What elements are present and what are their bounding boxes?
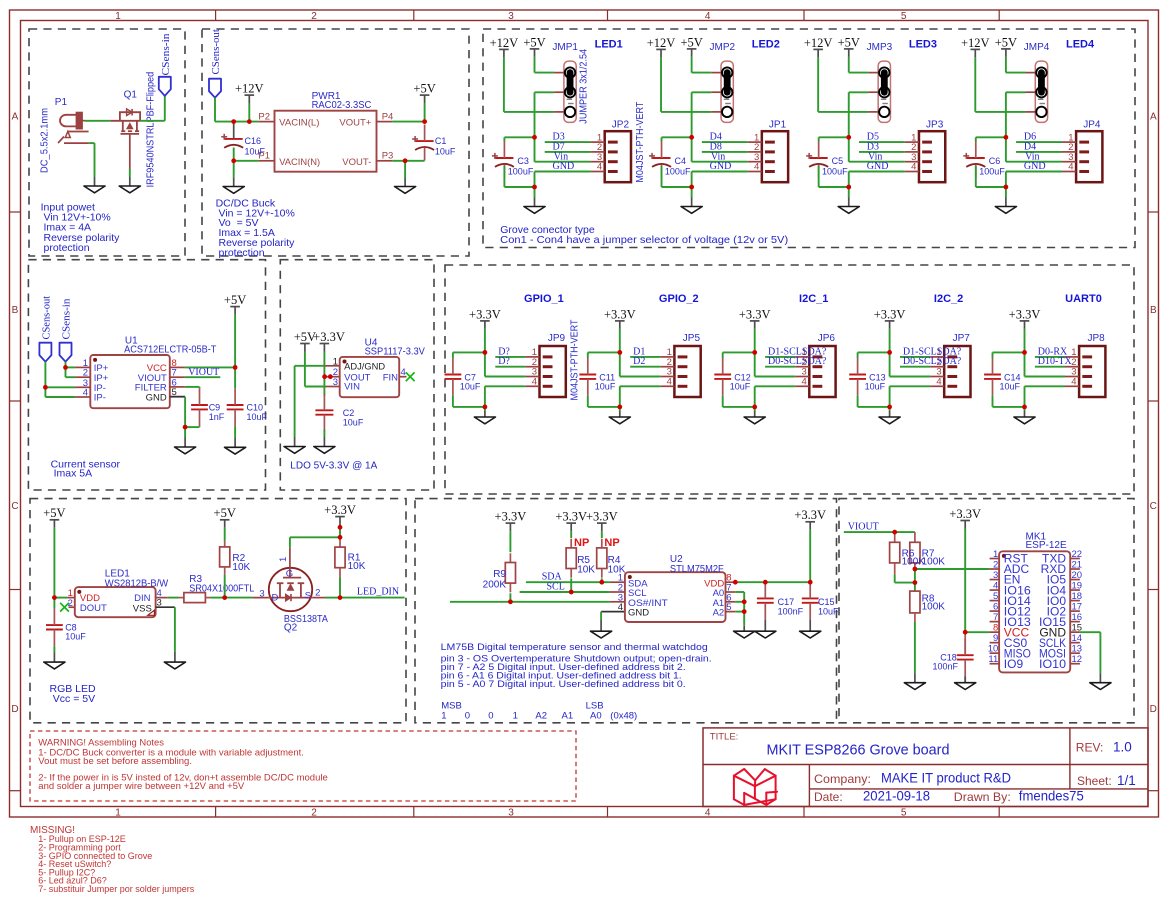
- svg-text:C: C: [11, 501, 18, 512]
- svg-text:CSens-out: CSens-out: [40, 296, 52, 340]
- svg-text:16: 16: [1072, 612, 1083, 623]
- svg-text:4: 4: [936, 377, 941, 388]
- svg-text:3: 3: [333, 377, 338, 388]
- svg-text:REV:: REV:: [1076, 741, 1104, 755]
- svg-text:0: 0: [465, 711, 470, 722]
- svg-text:1nF: 1nF: [209, 412, 225, 422]
- svg-text:2: 2: [68, 598, 73, 609]
- svg-text:ESP-12E: ESP-12E: [1026, 540, 1067, 551]
- svg-text:JP8: JP8: [1088, 333, 1106, 344]
- svg-text:2: 2: [315, 588, 320, 599]
- svg-text:18: 18: [1072, 591, 1083, 602]
- svg-text:1: 1: [333, 356, 338, 367]
- svg-text:JP5: JP5: [683, 333, 701, 344]
- svg-text:Drawn By:: Drawn By:: [954, 790, 1011, 804]
- svg-text:ACS712ELCTR-05B-T: ACS712ELCTR-05B-T: [124, 344, 216, 355]
- svg-text:10K: 10K: [348, 561, 366, 572]
- svg-text:JP6: JP6: [818, 333, 836, 344]
- svg-text:fmendes75: fmendes75: [1019, 789, 1084, 804]
- svg-text:DC_5.5x2.1mm: DC_5.5x2.1mm: [40, 108, 51, 173]
- svg-text:JP4: JP4: [1083, 119, 1101, 130]
- svg-text:3: 3: [993, 570, 998, 581]
- svg-text:C4: C4: [675, 156, 687, 166]
- svg-text:MKIT ESP8266 Grove board: MKIT ESP8266 Grove board: [767, 742, 950, 759]
- svg-text:GND: GND: [867, 161, 889, 172]
- svg-text:P3: P3: [382, 151, 394, 162]
- svg-text:14: 14: [1072, 633, 1083, 644]
- svg-text:10: 10: [988, 643, 999, 654]
- svg-text:IRF9540NSTRLPBF-Flipped: IRF9540NSTRLPBF-Flipped: [146, 72, 157, 188]
- svg-text:3: 3: [508, 807, 514, 818]
- svg-text:B: B: [12, 305, 19, 316]
- svg-text:1: 1: [441, 711, 446, 722]
- svg-text:+12V: +12V: [961, 36, 990, 50]
- svg-text:D: D: [272, 592, 279, 603]
- svg-text:+5V: +5V: [995, 35, 1017, 49]
- svg-text:A2: A2: [713, 608, 725, 619]
- svg-text:200K: 200K: [483, 580, 507, 591]
- svg-text:4: 4: [1071, 377, 1076, 388]
- svg-text:4: 4: [911, 162, 916, 173]
- svg-text:100uF: 100uF: [508, 166, 534, 176]
- svg-text:4: 4: [401, 367, 406, 378]
- svg-text:FIN: FIN: [383, 372, 398, 383]
- svg-text:S: S: [305, 591, 311, 602]
- svg-text:A2: A2: [535, 711, 547, 722]
- svg-text:4: 4: [83, 388, 88, 399]
- svg-text:4: 4: [618, 602, 623, 613]
- svg-text:100K: 100K: [922, 557, 946, 568]
- svg-text:JMP4: JMP4: [1024, 42, 1050, 53]
- svg-text:G: G: [286, 569, 293, 580]
- svg-text:+3.3V: +3.3V: [495, 510, 527, 524]
- svg-text:0: 0: [488, 711, 493, 722]
- svg-text:4: 4: [667, 377, 672, 388]
- svg-text:1.0: 1.0: [1113, 740, 1132, 755]
- svg-text:9: 9: [993, 633, 998, 644]
- svg-text:and solder a jumper wire betwe: and solder a jumper wire between +12V an…: [38, 781, 245, 792]
- svg-text:VIOUT: VIOUT: [848, 521, 879, 532]
- svg-text:D0-SCLSDA?: D0-SCLSDA?: [768, 356, 827, 367]
- svg-text:P2: P2: [258, 111, 270, 122]
- svg-text:VACIN(N): VACIN(N): [279, 157, 320, 168]
- svg-text:LED3: LED3: [909, 39, 937, 51]
- svg-text:+5V: +5V: [43, 506, 65, 520]
- svg-text:+5V: +5V: [224, 293, 246, 307]
- svg-text:IO9: IO9: [1004, 657, 1024, 671]
- svg-text:I2C_1: I2C_1: [799, 293, 828, 305]
- svg-text:VSS: VSS: [133, 603, 152, 614]
- svg-text:protection: protection: [219, 247, 265, 259]
- svg-text:5: 5: [993, 591, 998, 602]
- svg-text:3: 3: [259, 588, 264, 599]
- svg-text:D: D: [1150, 704, 1157, 715]
- svg-text:22: 22: [1072, 549, 1083, 560]
- svg-text:+3.3V: +3.3V: [1009, 307, 1041, 321]
- svg-text:10uF: 10uF: [460, 381, 481, 391]
- svg-text:SR04X1000FTL: SR04X1000FTL: [189, 584, 254, 595]
- svg-text:I2C_2: I2C_2: [934, 293, 963, 305]
- svg-text:19: 19: [1072, 580, 1083, 591]
- svg-text:GND: GND: [146, 392, 167, 403]
- svg-text:7: 7: [993, 612, 998, 623]
- svg-text:5: 5: [901, 807, 907, 818]
- svg-text:10uF: 10uF: [65, 632, 86, 642]
- svg-text:Date:: Date:: [814, 790, 843, 804]
- svg-text:STLM75M2F: STLM75M2F: [670, 564, 724, 575]
- svg-text:10uF: 10uF: [435, 147, 456, 157]
- svg-text:2: 2: [311, 807, 317, 818]
- svg-text:+12V: +12V: [804, 36, 833, 50]
- svg-text:1: 1: [115, 11, 121, 22]
- svg-text:protection: protection: [44, 242, 90, 254]
- svg-text:10uF: 10uF: [343, 417, 364, 427]
- svg-text:Company:: Company:: [814, 772, 871, 786]
- svg-text:3: 3: [508, 11, 514, 22]
- svg-text:JMP2: JMP2: [710, 42, 736, 53]
- svg-text:21: 21: [1072, 559, 1083, 570]
- svg-text:VIOUT: VIOUT: [188, 367, 219, 378]
- svg-text:JP7: JP7: [953, 333, 971, 344]
- svg-text:1: 1: [993, 549, 998, 560]
- svg-text:4: 4: [993, 580, 998, 591]
- svg-text:C17: C17: [778, 597, 795, 607]
- svg-text:UART0: UART0: [1065, 293, 1102, 305]
- svg-text:C5: C5: [832, 156, 844, 166]
- svg-text:MAKE IT product R&D: MAKE IT product R&D: [881, 771, 1011, 786]
- svg-text:4: 4: [705, 11, 711, 22]
- svg-text:VOUT-: VOUT-: [342, 157, 371, 168]
- svg-text:2: 2: [993, 559, 998, 570]
- svg-text:GND: GND: [628, 608, 649, 619]
- svg-text:NP: NP: [574, 537, 589, 549]
- svg-text:M04JST-PTH-VERT: M04JST-PTH-VERT: [570, 320, 581, 401]
- svg-text:4: 4: [597, 162, 602, 173]
- svg-text:C6: C6: [989, 156, 1001, 166]
- svg-text:Con1 - Con4 have a jumper sele: Con1 - Con4 have a jumper selector of vo…: [500, 234, 788, 246]
- svg-text:D10-TX: D10-TX: [1038, 356, 1073, 367]
- svg-text:10uF: 10uF: [1000, 381, 1021, 391]
- svg-text:VACIN(L): VACIN(L): [279, 118, 319, 129]
- svg-text:C15: C15: [818, 597, 835, 607]
- svg-text:+3.3V: +3.3V: [313, 330, 345, 344]
- svg-text:4: 4: [754, 162, 759, 173]
- svg-text:ADJ/GND: ADJ/GND: [344, 362, 385, 373]
- svg-text:M04JST-PTH-VERT: M04JST-PTH-VERT: [635, 102, 646, 183]
- svg-text:+3.3V: +3.3V: [949, 507, 981, 521]
- svg-text:VIN: VIN: [344, 381, 360, 392]
- svg-text:4: 4: [802, 377, 807, 388]
- svg-text:1: 1: [115, 807, 121, 818]
- svg-text:GND: GND: [553, 161, 575, 172]
- svg-text:17: 17: [1072, 601, 1083, 612]
- svg-text:10uF: 10uF: [818, 607, 839, 617]
- svg-text:C1: C1: [435, 136, 447, 146]
- svg-text:A0: A0: [590, 711, 602, 722]
- svg-text:SCL: SCL: [547, 581, 565, 592]
- svg-text:+5V: +5V: [523, 35, 545, 49]
- svg-text:+12V: +12V: [490, 36, 519, 50]
- svg-text:Vout must be set before assemb: Vout must be set before assembling.: [38, 756, 192, 767]
- svg-text:+3.3V: +3.3V: [586, 510, 618, 524]
- svg-text:2: 2: [311, 11, 317, 22]
- svg-text:DOUT: DOUT: [80, 603, 107, 614]
- svg-text:5: 5: [901, 11, 907, 22]
- svg-text:P4: P4: [382, 111, 394, 122]
- svg-text:NP: NP: [604, 537, 619, 549]
- svg-text:+3.3V: +3.3V: [604, 307, 636, 321]
- svg-text:D2: D2: [633, 356, 645, 367]
- svg-text:JMP3: JMP3: [867, 42, 893, 53]
- svg-text:+12V: +12V: [235, 82, 264, 96]
- svg-text:P1: P1: [55, 97, 68, 108]
- svg-text:Imax 5A: Imax 5A: [54, 468, 93, 480]
- svg-text:10uF: 10uF: [247, 412, 268, 422]
- svg-text:JMP1: JMP1: [552, 42, 578, 53]
- svg-text:RAC02-3.3SC: RAC02-3.3SC: [312, 100, 372, 111]
- svg-text:100nF: 100nF: [778, 607, 804, 617]
- svg-text:4: 4: [532, 377, 537, 388]
- svg-text:IO10: IO10: [1039, 657, 1066, 671]
- svg-text:LM75B Digital temperature sens: LM75B Digital temperature sensor and the…: [441, 642, 708, 653]
- svg-text:SSP1117-3.3V: SSP1117-3.3V: [365, 347, 426, 358]
- svg-text:2021-09-18: 2021-09-18: [863, 789, 930, 804]
- svg-text:+3.3V: +3.3V: [739, 307, 771, 321]
- svg-text:D: D: [11, 704, 18, 715]
- svg-text:+12V: +12V: [647, 36, 676, 50]
- svg-text:A: A: [12, 112, 19, 123]
- svg-text:C10: C10: [247, 403, 264, 413]
- svg-text:100K: 100K: [922, 602, 946, 613]
- svg-text:+5V: +5V: [680, 35, 702, 49]
- svg-text:CSens-out: CSens-out: [210, 29, 222, 74]
- svg-text:A1: A1: [562, 711, 574, 722]
- svg-text:CSens-in: CSens-in: [160, 33, 172, 76]
- svg-text:C3: C3: [517, 156, 529, 166]
- svg-text:+3.3V: +3.3V: [794, 508, 826, 522]
- svg-text:JP9: JP9: [548, 333, 566, 344]
- svg-text:10uF: 10uF: [730, 381, 751, 391]
- svg-text:20: 20: [1072, 570, 1083, 581]
- svg-text:B: B: [1150, 305, 1157, 316]
- svg-text:10uF: 10uF: [595, 381, 616, 391]
- svg-text:4: 4: [705, 807, 711, 818]
- svg-text:CSens-in: CSens-in: [61, 298, 73, 340]
- svg-text:7- substituir Jumper por solde: 7- substituir Jumper por solder jumpers: [38, 884, 195, 894]
- svg-text:Sheet:: Sheet:: [1077, 774, 1112, 788]
- svg-text:100uF: 100uF: [979, 166, 1005, 176]
- svg-text:D?: D?: [498, 356, 510, 367]
- svg-text:D0-SCLSDA?: D0-SCLSDA?: [903, 356, 962, 367]
- svg-text:100uF: 100uF: [665, 166, 691, 176]
- svg-text:JP2: JP2: [612, 119, 630, 130]
- svg-text:LED2: LED2: [752, 39, 780, 51]
- svg-text:10K: 10K: [608, 564, 626, 575]
- svg-text:C9: C9: [209, 403, 221, 413]
- svg-text:+5V: +5V: [214, 506, 236, 520]
- svg-text:10uF: 10uF: [245, 147, 266, 157]
- svg-text:JUMPER 3x1/2.54: JUMPER 3x1/2.54: [579, 49, 590, 124]
- svg-text:+5V: +5V: [838, 35, 860, 49]
- svg-text:1: 1: [513, 711, 518, 722]
- svg-text:11: 11: [988, 654, 998, 665]
- svg-text:+3.3V: +3.3V: [324, 503, 356, 517]
- svg-text:TITLE:: TITLE:: [710, 732, 739, 743]
- svg-text:Q1: Q1: [124, 90, 138, 101]
- svg-text:100nF: 100nF: [932, 661, 958, 671]
- svg-text:A: A: [1150, 112, 1157, 123]
- svg-text:(0x48): (0x48): [610, 711, 637, 722]
- svg-text:6: 6: [993, 601, 998, 612]
- svg-text:VOUT+: VOUT+: [339, 118, 371, 129]
- svg-text:100uF: 100uF: [822, 166, 848, 176]
- svg-text:C: C: [1150, 501, 1157, 512]
- svg-text:JP1: JP1: [769, 119, 787, 130]
- svg-text:10K: 10K: [232, 562, 250, 573]
- svg-text:LED_DIN: LED_DIN: [357, 586, 399, 597]
- svg-text:10uF: 10uF: [865, 381, 886, 391]
- svg-text:GND: GND: [1024, 161, 1046, 172]
- svg-text:1: 1: [278, 557, 289, 562]
- svg-text:GND: GND: [710, 161, 732, 172]
- svg-text:+3.3V: +3.3V: [555, 510, 587, 524]
- svg-text:C16: C16: [245, 136, 262, 146]
- svg-text:1/1: 1/1: [1117, 773, 1136, 788]
- svg-text:8: 8: [993, 622, 998, 633]
- svg-text:+5V: +5V: [413, 82, 435, 96]
- svg-text:LED4: LED4: [1066, 39, 1095, 51]
- svg-text:GPIO_1: GPIO_1: [524, 293, 564, 305]
- svg-text:10K: 10K: [577, 564, 595, 575]
- svg-text:JP3: JP3: [926, 119, 944, 130]
- svg-text:LED1: LED1: [595, 39, 623, 51]
- svg-text:GPIO_2: GPIO_2: [659, 293, 699, 305]
- svg-text:4: 4: [1068, 162, 1073, 173]
- svg-text:13: 13: [1072, 643, 1083, 654]
- svg-text:IP-: IP-: [94, 393, 106, 404]
- svg-text:+3.3V: +3.3V: [874, 307, 906, 321]
- svg-text:Q2: Q2: [284, 623, 298, 634]
- svg-text:pin 5 - A0 7 Digital input. Us: pin 5 - A0 7 Digital input. User-defined…: [441, 679, 686, 690]
- svg-text:Vcc = 5V: Vcc = 5V: [53, 693, 95, 705]
- svg-text:+3.3V: +3.3V: [469, 307, 501, 321]
- svg-text:12: 12: [1072, 654, 1083, 665]
- svg-text:LDO 5V-3.3V @ 1A: LDO 5V-3.3V @ 1A: [290, 460, 377, 472]
